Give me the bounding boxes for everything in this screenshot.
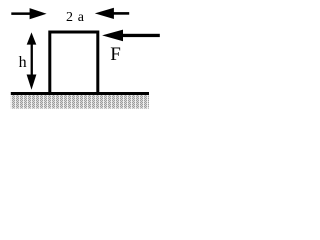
svg-text:F: F — [110, 44, 121, 65]
svg-text:a: a — [78, 10, 85, 25]
svg-text:2: 2 — [66, 10, 73, 25]
svg-text:h: h — [19, 54, 27, 71]
